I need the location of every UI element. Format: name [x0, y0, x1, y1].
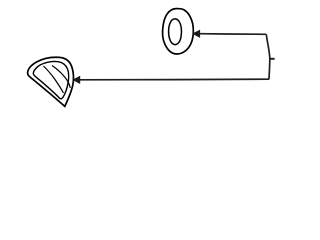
- node A outer ellipse (top-right, hand-drawn egg): [163, 9, 194, 54]
- edge to node B: arrowhead: [73, 77, 79, 84]
- node B outer contour (teardrop, hand-drawn): [28, 57, 74, 106]
- node B inner ellipse stroke 2 (collapsed rough pass): [52, 66, 70, 89]
- junction tick on vertical wire: [270, 58, 275, 60]
- wire: bottom horizontal segment: [80, 78, 269, 81]
- node A inner ellipse: [169, 19, 182, 45]
- wire: vertical segment on right: [266, 34, 270, 79]
- edge to node A: arrowhead: [193, 30, 199, 37]
- node B inner ellipse stroke 1 (collapsed rough pass): [44, 66, 64, 93]
- node B inner contour (second hand-drawn pass): [33, 62, 68, 99]
- edge to node A: horizontal wire from right corner: [199, 33, 266, 36]
